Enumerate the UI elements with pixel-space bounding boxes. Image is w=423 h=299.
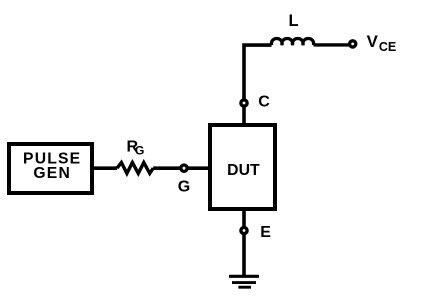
ground [229, 276, 259, 287]
svg-text:GEN: GEN [33, 165, 71, 182]
resistor RG [117, 163, 153, 174]
inductor L [271, 39, 313, 46]
wire: pulse gen output to resistor [92, 166, 117, 170]
svg-text:DUT: DUT [227, 162, 260, 179]
svg-text:CE: CE [379, 40, 396, 54]
svg-text:V: V [367, 32, 379, 51]
svg-text:C: C [258, 94, 270, 111]
label RG [127, 138, 145, 157]
svg-text:G: G [178, 179, 190, 196]
wire: collector vertical and top elbow to inductor [244, 45, 272, 124]
node G [181, 165, 187, 171]
wire: resistor to DUT gate [153, 166, 210, 170]
svg-text:G: G [135, 143, 144, 157]
node C [241, 100, 247, 106]
label VCE [367, 32, 397, 54]
wire: emitter vertical to ground [242, 210, 246, 275]
wire: inductor to VCE terminal [314, 43, 350, 46]
svg-text:L: L [289, 12, 299, 30]
pulse generator box [9, 144, 92, 193]
svg-text:E: E [260, 224, 271, 241]
DUT box [210, 125, 275, 209]
node E [241, 227, 247, 233]
terminal VCE [350, 41, 356, 47]
